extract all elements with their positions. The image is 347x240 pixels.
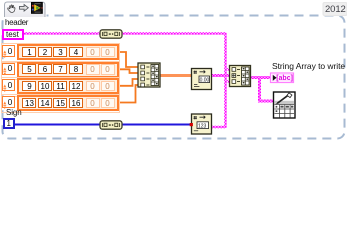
toolbar tab <box>5 2 46 17</box>
array row 3 <box>1 77 121 97</box>
wire: string vertical trunk x=225.5 <box>225 34 227 128</box>
conversion node B on blue wire <box>100 121 122 129</box>
label Sign <box>6 108 22 117</box>
build array 1 node <box>138 63 160 87</box>
conversion node A on string wire <box>100 30 122 38</box>
array row 1 <box>1 43 121 63</box>
array row 4 <box>1 94 121 113</box>
wire: blue I32 from Sign control <box>13 124 191 126</box>
wire: orange array row1 to build array <box>119 52 138 67</box>
label header <box>5 18 28 27</box>
wire: stub to build array 2 input 1 <box>226 68 231 71</box>
wire: string scalar from test control <box>22 33 227 35</box>
label String Array to write <box>272 61 345 71</box>
array row 2 <box>1 61 121 81</box>
wire: orange array row2 to build array <box>119 69 138 73</box>
wire: string array branch down to write node <box>260 78 275 102</box>
label 2012 <box>325 4 346 15</box>
arrow tool icon <box>19 5 28 12</box>
string control test <box>2 29 24 41</box>
build array 2 node <box>230 66 251 87</box>
wire: string array build array 2 output to indicator <box>251 76 272 79</box>
wire: 2D DBL array thick orange <box>160 74 192 77</box>
hand tool icon <box>8 5 15 13</box>
svg-text:123: 123 <box>198 123 207 129</box>
number-to-decimal-string node C <box>192 114 212 134</box>
svg-text:[abc]: [abc] <box>276 75 293 82</box>
VI snippet dashed border <box>3 16 345 139</box>
number-to-fractional-string node D <box>192 69 212 90</box>
svg-text:0.00: 0.00 <box>200 77 210 83</box>
wire: orange array row3 to build array <box>119 79 138 86</box>
numeric control Sign value 1 <box>3 118 15 129</box>
wire: stub to build array 2 input 3 <box>226 80 231 83</box>
run (LabVIEW) icon <box>32 3 43 14</box>
wire: string from Sign conversion node <box>211 126 227 128</box>
wire: string array NTFS out to build array 2 <box>212 74 231 77</box>
wire: orange array row4 to build array <box>119 85 138 103</box>
string array indicator terminal <box>271 73 294 83</box>
write to spreadsheet file node <box>274 92 296 118</box>
2012 badge <box>323 3 347 16</box>
coercion dot <box>190 123 193 126</box>
white gap under toolbar tab <box>4 13 47 18</box>
